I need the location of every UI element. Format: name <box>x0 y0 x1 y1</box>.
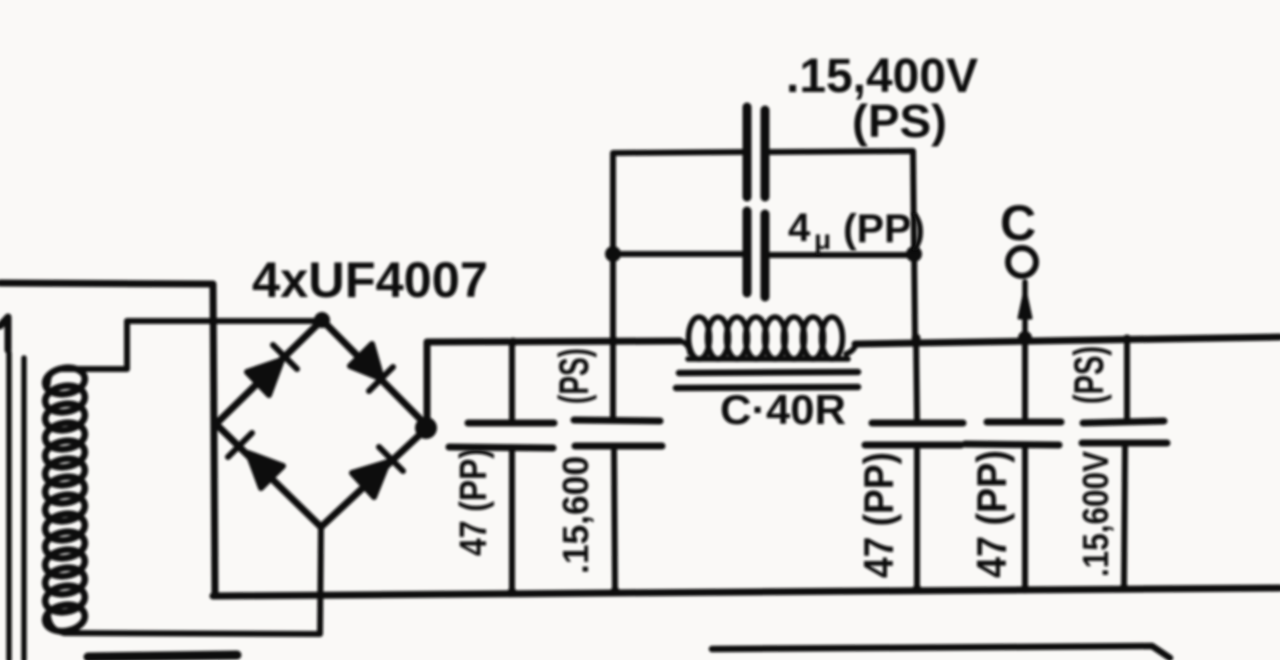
svg-text:(PP): (PP) <box>843 207 925 251</box>
svg-text:.15,600: .15,600 <box>555 456 596 574</box>
svg-text:4: 4 <box>788 206 811 250</box>
svg-text:47 (PP): 47 (PP) <box>855 452 902 578</box>
svg-text:C: C <box>1000 195 1036 251</box>
svg-text:(PS): (PS) <box>852 95 947 147</box>
svg-text:47 (PP): 47 (PP) <box>968 450 1015 578</box>
svg-text:(PS): (PS) <box>1065 346 1112 404</box>
svg-text:47 (PP): 47 (PP) <box>453 448 495 556</box>
svg-text:C·40R: C·40R <box>720 386 846 433</box>
svg-text:.15,600V: .15,600V <box>1075 451 1116 577</box>
svg-text:(PS): (PS) <box>550 348 597 404</box>
svg-text:μ: μ <box>814 224 831 255</box>
svg-text:4xUF4007: 4xUF4007 <box>252 252 488 308</box>
